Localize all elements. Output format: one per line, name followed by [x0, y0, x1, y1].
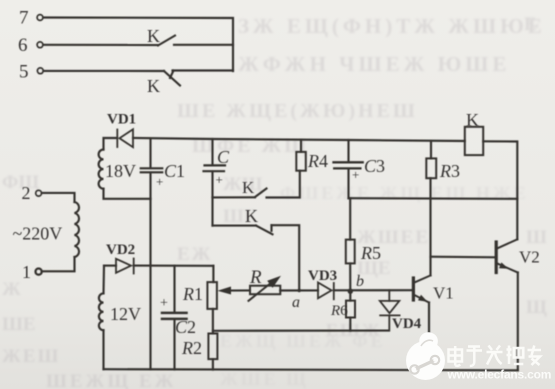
svg-text:VD4: VD4: [392, 316, 422, 332]
svg-text:R: R: [249, 267, 262, 288]
resistor R1: [207, 282, 217, 309]
switch K blade (NC discharge contact): [256, 226, 273, 235]
svg-text:2: 2: [22, 183, 31, 203]
wire 18V bottom rail: [104, 189, 151, 199]
wire second K switch line left: [213, 225, 257, 227]
transistor V2: [496, 239, 518, 272]
svg-text:ЕЖЩ ШЕЖ ФЕ: ЕЖЩ ШЕЖ ФЕ: [220, 331, 386, 351]
wire R1-R2 junction: [212, 309, 214, 334]
svg-text:ЕЖ: ЕЖ: [177, 244, 212, 265]
wire C lead down to second switch line: [211, 197, 213, 225]
relay K coil: [465, 127, 483, 155]
resistor R2: [208, 334, 217, 360]
svg-text:C3: C3: [364, 156, 385, 176]
capacitor C1: [141, 139, 163, 199]
svg-text:Ж: Ж: [2, 279, 21, 300]
svg-text:C: C: [217, 147, 230, 167]
diode VD2: [116, 259, 134, 274]
svg-text:~220V: ~220V: [13, 224, 63, 244]
NC contact tick: [270, 225, 272, 231]
svg-text:K: K: [245, 206, 258, 226]
svg-text:V2: V2: [519, 248, 540, 267]
svg-text:6: 6: [18, 35, 28, 56]
terminal 1: [36, 269, 42, 275]
svg-text:VD2: VD2: [106, 242, 135, 258]
wire switch to R4 bottom: [267, 171, 300, 198]
wire 12V top to VD2: [104, 265, 116, 267]
wire R1-R2 junction rail to VD4: [213, 330, 389, 332]
wire R5 bottom to node b: [349, 263, 351, 291]
svg-text:Е: Е: [524, 14, 537, 35]
resistor R5: [346, 240, 355, 264]
svg-text:ЗЖ ЕЩ(ФН)ТЖ ЖШЮЕ: ЗЖ ЕЩ(ФН)ТЖ ЖШЮЕ: [238, 14, 546, 38]
svg-text:R4: R4: [307, 151, 328, 171]
potentiometer R body: [250, 286, 280, 295]
svg-text:VD1: VD1: [107, 112, 136, 128]
svg-text:R6: R6: [330, 303, 348, 319]
svg-text:C2: C2: [175, 317, 196, 337]
svg-text:ЖЕШ: ЖЕШ: [2, 346, 60, 367]
wire R4 to top bus: [300, 140, 302, 152]
svg-text:C1: C1: [164, 161, 185, 181]
svg-text:5: 5: [19, 62, 29, 83]
wire node b to R6: [349, 291, 351, 300]
transformer 18V secondary winding: [99, 150, 104, 189]
switch K blade (6-7 contact): [158, 36, 175, 46]
switch K blade (5-7 NC contact): [164, 71, 180, 86]
wire from terminal 5: [44, 70, 165, 72]
wire relay to V2 collector: [483, 141, 517, 239]
NC contact tick: [170, 71, 174, 79]
wire V2 emitter to bottom bus: [517, 273, 519, 371]
capacitor C3: [334, 140, 363, 198]
wire R2 to bottom bus: [212, 359, 214, 370]
svg-text:R3: R3: [439, 161, 460, 181]
wire R5 top to collector rail: [349, 198, 351, 239]
svg-text:www.elecfans.com: www.elecfans.com: [447, 368, 552, 382]
svg-text:1: 1: [22, 262, 31, 282]
wire first K switch line (C to blade): [213, 196, 256, 198]
svg-text:+: +: [352, 167, 359, 182]
diode VD1: [117, 129, 133, 147]
wire NC contact right and down to node a: [272, 225, 300, 290]
diode VD4: [380, 290, 400, 330]
terminal 7: [37, 15, 43, 21]
resistor R6: [346, 301, 355, 318]
svg-text:a: a: [292, 294, 300, 311]
capacitor C2: [162, 266, 187, 370]
potentiometer R wiper arrow: [218, 287, 251, 295]
svg-text:12V: 12V: [110, 304, 141, 324]
terminal 5: [37, 68, 43, 74]
svg-text:ШЕ ЖЩЕ(ЖЮ)НЕШ: ШЕ ЖЩЕ(ЖЮ)НЕШ: [177, 100, 418, 122]
resistor R4: [296, 152, 306, 171]
wire collector rail: [349, 197, 518, 200]
wire R1 top: [212, 266, 214, 282]
wire C1 negative bus down to bottom bus: [149, 199, 151, 370]
wire NC contact to vertical: [173, 69, 234, 71]
wire primary to terminal 1: [43, 257, 75, 271]
terminal 2: [36, 190, 42, 196]
svg-text:ЖФЖН ЧШЕЖ ЮШЕ: ЖФЖН ЧШЕЖ ЮШЕ: [238, 52, 510, 76]
watermark chinese text (drawn glyph blocks): [449, 346, 542, 367]
resistor R3: [426, 158, 436, 178]
wire R3 to top bus: [430, 141, 432, 158]
wire terminal 2 to primary: [42, 193, 75, 202]
svg-text:+: +: [160, 296, 168, 311]
wire pot to node a: [280, 289, 318, 291]
svg-text:V1: V1: [433, 284, 454, 303]
transformer primary winding: [75, 202, 80, 257]
svg-text:K: K: [242, 178, 255, 197]
top bus wire VD1 to relay: [133, 138, 465, 141]
node a: [298, 289, 301, 292]
svg-text:K: K: [147, 26, 160, 46]
watermark logo: [406, 332, 445, 380]
wire 12V leads: [102, 266, 105, 294]
node b: [348, 289, 353, 294]
svg-text:K: K: [466, 110, 479, 130]
switch K blade (timing contact NO): [255, 189, 267, 198]
svg-text:+: +: [216, 172, 223, 187]
wire V1 emitter to bottom bus: [428, 303, 430, 371]
svg-text:R5: R5: [360, 243, 381, 263]
wire V2 base line: [431, 256, 496, 259]
svg-text:ЖШЕ Щ: ЖШЕ Щ: [220, 369, 309, 389]
svg-text:K: K: [147, 76, 160, 96]
wire from terminal 7: [44, 18, 234, 72]
svg-text:ФШЕЖЕ ЖЩ ЕШ НЖЕ: ФШЕЖЕ ЖЩ ЕШ НЖЕ: [280, 183, 529, 203]
svg-text:VD3: VD3: [308, 268, 337, 284]
wire 18V top to VD1: [104, 138, 118, 150]
svg-text:R1: R1: [182, 284, 203, 304]
svg-text:7: 7: [19, 8, 29, 29]
wire switch to vertical: [174, 44, 233, 46]
wire R3 down to V1 collector node: [429, 178, 431, 275]
svg-text:R2: R2: [181, 338, 202, 358]
wire VD2 to R1 rail: [134, 265, 214, 267]
wire VD3 to node b and V1 base: [334, 289, 414, 291]
potentiometer R slash arrow: [249, 276, 282, 301]
svg-text:18V: 18V: [105, 161, 136, 181]
svg-text:Щ: Щ: [526, 297, 547, 318]
svg-text:ШЕ: ШЕ: [2, 314, 36, 335]
svg-text:+: +: [156, 174, 163, 189]
terminal 6: [37, 42, 43, 48]
bottom bus wire: [104, 369, 518, 370]
capacitor C: [204, 139, 226, 197]
wire from terminal 6: [44, 44, 159, 46]
svg-text:b: b: [356, 273, 364, 290]
svg-text:Ш: Ш: [526, 227, 547, 248]
wire R6 to junction rail: [349, 318, 351, 331]
diode VD3: [318, 283, 334, 300]
transformer 12V secondary winding: [99, 293, 104, 330]
transistor V1: [413, 275, 430, 302]
svg-text:ШЕЖЩ ЕЖ: ШЕЖЩ ЕЖ: [46, 371, 176, 389]
